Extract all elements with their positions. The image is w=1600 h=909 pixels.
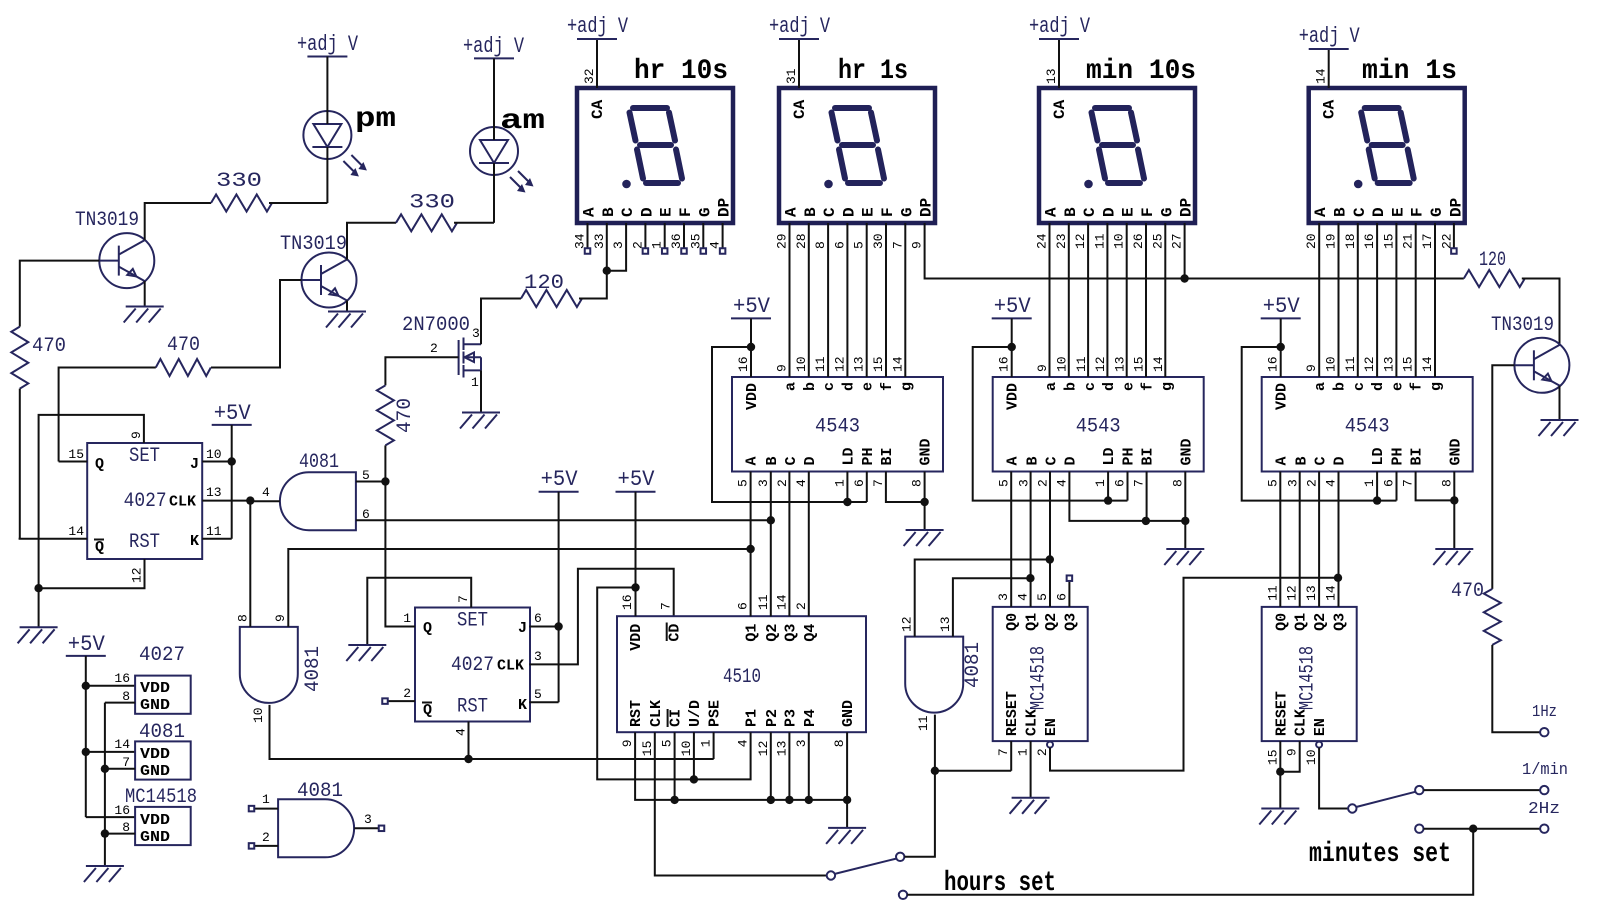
svg-text:11: 11 <box>1074 356 1089 372</box>
svg-text:DP: DP <box>918 198 936 217</box>
wire U7 P2 pin 12 <box>770 732 772 800</box>
svg-text:2: 2 <box>1036 479 1051 487</box>
wire am LED cathode <box>493 163 495 223</box>
svg-text:2: 2 <box>794 602 809 610</box>
svg-text:+adj V: +adj V <box>297 32 359 57</box>
svg-text:6: 6 <box>534 611 542 626</box>
svg-text:E: E <box>658 207 676 217</box>
svg-text:A: A <box>1273 456 1290 465</box>
svg-text:6: 6 <box>1113 479 1128 487</box>
ground U8 CLK <box>1010 798 1050 814</box>
svg-text:hr 10s: hr 10s <box>634 56 728 87</box>
ground 2N7000 source <box>460 413 500 429</box>
svg-text:G: G <box>898 207 916 217</box>
svg-text:4543: 4543 <box>1076 416 1121 439</box>
wire segment bus DS4 to U3 <box>1319 223 1435 377</box>
svg-text:GND: GND <box>1447 438 1464 465</box>
svg-text:1: 1 <box>262 792 270 807</box>
svg-text:6: 6 <box>1054 593 1069 601</box>
svg-text:RESET: RESET <box>1273 691 1290 736</box>
svg-text:14: 14 <box>1420 356 1435 372</box>
svg-text:P2: P2 <box>764 709 781 727</box>
svg-text:GND: GND <box>840 700 857 727</box>
svg-text:13: 13 <box>206 485 222 500</box>
IC U3 4543 BCD to 7-seg decoder <box>1262 356 1473 487</box>
svg-text:pm: pm <box>355 104 396 135</box>
node U3 LD junction <box>1373 496 1381 504</box>
ground Q2 emitter <box>326 312 366 328</box>
svg-text:Q4: Q4 <box>802 624 819 642</box>
svg-text:1: 1 <box>1016 748 1031 756</box>
svg-text:K: K <box>518 697 527 714</box>
svg-text:5: 5 <box>996 479 1011 487</box>
wire U1 VDD pin 16 <box>750 318 752 377</box>
svg-text:Q: Q <box>95 456 104 473</box>
svg-text:10: 10 <box>1055 356 1070 372</box>
svg-text:a: a <box>1043 382 1060 391</box>
svg-text:2: 2 <box>775 479 790 487</box>
svg-text:8: 8 <box>910 479 925 487</box>
svg-text:am: am <box>500 106 545 137</box>
wire R4 to 4027 Q <box>59 368 156 462</box>
svg-text:D: D <box>638 207 656 217</box>
wire U7 CI pin 5 <box>674 732 676 800</box>
svg-text:14: 14 <box>774 594 789 610</box>
svg-text:LD: LD <box>1370 447 1387 465</box>
wire U7 Q1 to U1 A <box>750 472 752 617</box>
svg-text:a: a <box>1312 382 1329 391</box>
wire Q1 emitter <box>144 281 146 306</box>
svg-text:16: 16 <box>997 356 1012 372</box>
svg-text:GND: GND <box>140 697 170 714</box>
svg-text:34: 34 <box>573 233 588 249</box>
svg-text:1: 1 <box>699 739 714 747</box>
node U9 Q3 tap junction <box>1334 574 1342 582</box>
transistor Q4 2N7000 MOSFET <box>402 314 481 390</box>
node U3 GND junction <box>1450 496 1458 504</box>
terminal square display4 DP <box>1451 223 1457 254</box>
svg-text:330: 330 <box>216 170 262 193</box>
svg-text:4027: 4027 <box>451 654 494 677</box>
svg-text:7: 7 <box>890 241 905 249</box>
svg-text:+5V: +5V <box>733 294 771 319</box>
svg-text:6: 6 <box>832 241 847 249</box>
resistor R2 470 (Q1 base) <box>11 327 66 389</box>
svg-text:13: 13 <box>938 616 953 632</box>
svg-text:C: C <box>1313 456 1330 465</box>
svg-text:19: 19 <box>1324 233 1339 249</box>
svg-text:10: 10 <box>206 447 222 462</box>
svg-text:DP: DP <box>1178 198 1196 217</box>
svg-text:CI: CI <box>668 709 685 727</box>
svg-text:11: 11 <box>813 356 828 372</box>
svg-text:CA: CA <box>791 99 809 119</box>
svg-text:2: 2 <box>403 686 411 701</box>
wire U5A input pin 6 bus to Q2 <box>356 519 771 521</box>
svg-text:27: 27 <box>1170 233 1185 249</box>
svg-text:P3: P3 <box>782 709 799 727</box>
svg-text:8: 8 <box>832 739 847 747</box>
AND gate U5D 4081 (unused) <box>249 780 385 857</box>
svg-text:12: 12 <box>1285 585 1300 601</box>
svg-text:f: f <box>879 382 896 391</box>
svg-text:2Hz: 2Hz <box>1528 800 1560 819</box>
svg-text:CA: CA <box>1051 99 1069 119</box>
svg-text:120: 120 <box>1479 249 1506 272</box>
wire U9 Q0 to U3 A <box>1279 472 1281 607</box>
svg-text:CD: CD <box>667 624 684 642</box>
wire 2N7000 source <box>480 370 482 412</box>
wire Q3 base <box>1492 365 1514 589</box>
svg-text:B: B <box>1332 207 1350 217</box>
svg-text:TN3019: TN3019 <box>1491 314 1554 337</box>
svg-text:+5V: +5V <box>1263 294 1301 319</box>
IC U4 4027 flip-flop (am/pm) <box>68 431 221 583</box>
+5V power symbol for logic supply <box>66 632 106 657</box>
node 2Hz rail junction <box>1469 825 1477 833</box>
svg-text:7: 7 <box>996 748 1011 756</box>
wire U5B input pin 9 bus to Q1 <box>288 549 750 627</box>
svg-text:C: C <box>1044 456 1061 465</box>
node U7 VDD junction <box>631 583 639 591</box>
svg-text:3: 3 <box>364 812 372 827</box>
svg-text:c: c <box>1351 382 1368 391</box>
svg-text:DP: DP <box>716 198 734 217</box>
wire U5B output pin 10 to PSE <box>270 705 714 759</box>
svg-text:VDD: VDD <box>1274 383 1291 410</box>
AND gate U5B 4081 (down) <box>236 614 326 723</box>
svg-text:e: e <box>860 382 877 391</box>
svg-text:d: d <box>1101 382 1118 391</box>
svg-text:16: 16 <box>1362 233 1377 249</box>
wire R2 to 4027 Q-bar <box>19 389 21 539</box>
svg-text:6: 6 <box>1382 479 1397 487</box>
wire segment bus DS2 to U1 <box>790 223 906 377</box>
AND gate U5A 4081 (mirrored) <box>262 451 370 530</box>
+adj V power symbol above DS2 <box>769 14 831 39</box>
svg-text:VDD: VDD <box>140 812 170 829</box>
svg-text:470: 470 <box>394 398 417 433</box>
svg-text:14: 14 <box>1151 356 1166 372</box>
svg-text:24: 24 <box>1035 233 1050 249</box>
wire 2N7000 gate to R5 <box>384 357 387 385</box>
wire R6 to display1 B/C node <box>579 271 607 299</box>
svg-text:15: 15 <box>1265 749 1280 765</box>
svg-text:DP: DP <box>1447 198 1465 217</box>
+5V power symbol above U7 <box>616 467 656 492</box>
svg-text:A: A <box>1312 207 1330 217</box>
node MC1 Q2 tap junction <box>1046 555 1054 563</box>
svg-text:11: 11 <box>1343 356 1358 372</box>
node U7 P2 junction <box>767 796 775 804</box>
svg-text:Q0: Q0 <box>1273 613 1290 631</box>
svg-text:+5V: +5V <box>214 401 252 426</box>
wire U3 GND to ground <box>1453 500 1455 549</box>
wire U7 GND pin 8 <box>846 732 848 828</box>
node 4510 Q2 tap junction <box>767 516 775 524</box>
IC U2 4543 BCD to 7-seg decoder <box>993 356 1204 487</box>
svg-text:4: 4 <box>1324 479 1339 487</box>
svg-text:4: 4 <box>736 739 751 747</box>
wire U4 ground drop <box>38 588 40 627</box>
ground U9 <box>1259 809 1299 825</box>
wire U7 RST pin 9 to ground rail <box>635 732 847 800</box>
wire U5A input pin 5 <box>356 481 386 483</box>
wire U6 J pin 6 +5V <box>529 492 558 627</box>
svg-text:16: 16 <box>114 671 130 686</box>
wire U7 Q4 to U1 D <box>808 472 810 617</box>
svg-text:3: 3 <box>794 739 809 747</box>
+adj V power symbol above DS4 <box>1299 24 1361 49</box>
svg-text:2: 2 <box>430 341 438 356</box>
node 4510 Q1 tap junction <box>746 545 754 553</box>
svg-text:13: 13 <box>1044 68 1059 84</box>
+5V power symbol above U4 J/K <box>212 401 252 426</box>
wire U4 J pin 10 +5V <box>202 425 232 462</box>
svg-text:120: 120 <box>524 272 564 295</box>
svg-text:B: B <box>1062 207 1080 217</box>
wire U8 EN pin 2 from U9 Q3 <box>1050 578 1338 771</box>
svg-text:C: C <box>783 456 800 465</box>
svg-text:f: f <box>1140 382 1157 391</box>
wire U4 CLK pin 13 <box>202 500 250 502</box>
svg-text:E: E <box>860 207 878 217</box>
svg-text:7: 7 <box>659 602 674 610</box>
wire display1 pin B <box>606 223 608 271</box>
wire U2 PH pin 6 <box>1127 472 1129 501</box>
svg-text:470: 470 <box>1451 580 1484 603</box>
wire SW1 throw to reset node <box>904 771 935 857</box>
svg-text:17: 17 <box>1420 233 1435 249</box>
wire U1 LD pin 1 <box>846 472 848 503</box>
svg-text:6: 6 <box>852 479 867 487</box>
wire U9 Q3 to U3 D <box>1338 472 1340 607</box>
svg-text:CA: CA <box>1321 99 1339 119</box>
svg-text:16: 16 <box>114 803 130 818</box>
svg-text:11: 11 <box>1265 585 1280 601</box>
7-segment display DS3 min 10s <box>1035 56 1197 249</box>
node U7 P3 junction <box>785 796 793 804</box>
+adj V power symbol above DS3 <box>1029 14 1091 39</box>
wire U2 GND to ground <box>1184 521 1186 549</box>
svg-text:4: 4 <box>454 728 469 736</box>
svg-text:A: A <box>1004 456 1021 465</box>
terminal 1Hz <box>1532 703 1557 736</box>
wire Q1 base <box>20 261 100 327</box>
svg-text:3: 3 <box>756 479 771 487</box>
wire U2 +5V rail to LD/PH <box>973 347 1128 501</box>
node U1 VDD junction <box>747 343 755 351</box>
svg-text:B: B <box>1294 456 1311 465</box>
power box 4027 VDD/GND <box>114 644 190 714</box>
wire U1 +5V rail to LD/PH <box>712 347 867 502</box>
ground U4 set/rst <box>18 627 58 643</box>
svg-text:12: 12 <box>1093 356 1108 372</box>
svg-text:330: 330 <box>409 192 455 215</box>
wire pm LED anode <box>326 57 328 125</box>
svg-text:D: D <box>1100 207 1118 217</box>
svg-text:+adj V: +adj V <box>463 34 525 59</box>
wire U9 Q2 to U3 C <box>1318 472 1320 607</box>
svg-text:f: f <box>1409 382 1426 391</box>
wire U5A output pin 4 <box>250 500 280 502</box>
node DP rail display3 junction <box>1180 274 1188 282</box>
svg-text:10: 10 <box>1324 356 1339 372</box>
svg-text:4510: 4510 <box>723 666 761 689</box>
svg-text:20: 20 <box>1304 233 1319 249</box>
wire U3 LD pin 1 <box>1376 472 1378 501</box>
node U2 GND junction <box>1181 517 1189 525</box>
wire U7 CLK pin 15 to hours-set switch <box>655 732 827 875</box>
svg-text:29: 29 <box>775 233 790 249</box>
svg-text:GND: GND <box>918 438 935 465</box>
svg-text:26: 26 <box>1131 233 1146 249</box>
svg-text:GND: GND <box>140 829 170 846</box>
svg-text:Q3: Q3 <box>782 624 799 642</box>
svg-text:VDD: VDD <box>628 624 645 651</box>
svg-text:5: 5 <box>534 687 542 702</box>
pin CA wire display DS1 <box>596 39 598 88</box>
node U2 LD junction <box>1104 496 1112 504</box>
svg-text:hr 1s: hr 1s <box>838 56 908 87</box>
svg-text:23: 23 <box>1054 233 1069 249</box>
7-segment display DS1 hr 10s <box>573 56 734 249</box>
svg-text:4543: 4543 <box>1345 416 1390 439</box>
pin CA wire display DS3 <box>1058 39 1060 88</box>
svg-text:e: e <box>1389 382 1406 391</box>
svg-text:8: 8 <box>1439 479 1454 487</box>
+adj V power symbol above am LED <box>463 34 525 59</box>
svg-text:30: 30 <box>871 233 886 249</box>
ground U2 <box>1164 549 1204 565</box>
transistor Q3 TN3019 (DP driver) <box>1491 314 1569 393</box>
svg-text:8: 8 <box>1170 479 1185 487</box>
wire R5 to node <box>384 445 386 481</box>
svg-text:5: 5 <box>852 241 867 249</box>
wire Q2 emitter <box>346 301 348 312</box>
svg-text:32: 32 <box>582 68 597 84</box>
svg-text:SET: SET <box>457 610 488 633</box>
wire U4 SET pin 9 to ground net <box>39 415 144 588</box>
wire Q2 base from R4 <box>211 280 302 368</box>
svg-text:A: A <box>783 207 801 217</box>
power box 4081 VDD/GND <box>114 721 190 780</box>
node +5V rail junction 4027 <box>82 682 90 690</box>
svg-text:1: 1 <box>403 611 411 626</box>
svg-text:PH: PH <box>1121 447 1138 465</box>
wire U7 Q3 to U1 C <box>788 472 790 617</box>
wire U3 PH pin 6 <box>1396 472 1398 501</box>
svg-text:TN3019: TN3019 <box>280 233 347 256</box>
svg-text:12: 12 <box>900 616 915 632</box>
svg-text:4: 4 <box>1016 593 1031 601</box>
ground Q3 emitter <box>1539 420 1579 436</box>
svg-text:VDD: VDD <box>140 746 170 763</box>
wire U7 U/D pin 10 <box>693 732 695 779</box>
svg-text:MC14518: MC14518 <box>1028 646 1051 710</box>
svg-text:2N7000: 2N7000 <box>402 314 470 337</box>
svg-text:+adj V: +adj V <box>1029 14 1091 39</box>
svg-text:14: 14 <box>114 737 130 752</box>
svg-text:36: 36 <box>669 233 684 249</box>
svg-text:7: 7 <box>122 755 130 770</box>
svg-text:11: 11 <box>916 715 931 731</box>
svg-text:Q2: Q2 <box>764 624 781 642</box>
wire U8 RESET pin 7 from U5C <box>935 741 1011 771</box>
wire U6 RST line to U7 PSE <box>469 758 714 760</box>
resistor R6 120 (segment current) <box>521 272 582 307</box>
svg-text:13: 13 <box>852 356 867 372</box>
svg-text:c: c <box>1082 382 1099 391</box>
svg-text:J: J <box>190 456 199 473</box>
svg-text:GND: GND <box>1178 438 1195 465</box>
wire U8 Q2 to U2 C <box>1049 472 1051 607</box>
svg-text:7: 7 <box>1401 479 1416 487</box>
svg-text:470: 470 <box>167 334 200 357</box>
svg-text:RST: RST <box>628 700 645 727</box>
node U7 CI junction <box>670 796 678 804</box>
svg-text:TN3019: TN3019 <box>75 209 139 232</box>
wire U8 Q1 to U2 B <box>1030 472 1032 607</box>
svg-text:Q: Q <box>423 620 432 637</box>
node U9 RESET junction <box>1276 768 1284 776</box>
svg-text:3: 3 <box>611 241 626 249</box>
svg-text:B: B <box>600 207 618 217</box>
node U2 BI junction <box>1142 517 1150 525</box>
svg-text:16: 16 <box>736 356 751 372</box>
svg-text:CLK: CLK <box>648 700 665 727</box>
svg-text:8: 8 <box>236 614 251 622</box>
svg-text:28: 28 <box>794 233 809 249</box>
wire SW1 lower throw to 2Hz rail <box>907 829 1473 895</box>
svg-text:b: b <box>802 382 819 391</box>
wire U4 Qbar pin 14 <box>19 538 88 540</box>
svg-text:12: 12 <box>130 567 145 583</box>
+5V power symbol above U2 <box>992 294 1032 319</box>
svg-text:C: C <box>619 207 637 217</box>
pin CA wire display DS4 <box>1328 49 1330 88</box>
wire U6 CLK pin 3 from 4510 CO <box>529 569 673 665</box>
svg-text:D: D <box>840 207 858 217</box>
svg-text:B: B <box>764 456 781 465</box>
svg-text:C: C <box>1081 207 1099 217</box>
wire U8 CLK pin 1 to ground <box>1030 741 1032 798</box>
wire U8 Q0 to U2 A <box>1010 472 1012 607</box>
svg-text:18: 18 <box>1343 233 1358 249</box>
svg-text:Q1: Q1 <box>1024 613 1041 631</box>
svg-text:G: G <box>696 207 714 217</box>
svg-text:1/min: 1/min <box>1522 761 1568 780</box>
svg-text:7: 7 <box>456 595 471 603</box>
svg-text:9: 9 <box>129 431 144 439</box>
switch SW2 minutes set (SPDT) <box>1348 786 1423 833</box>
svg-text:16: 16 <box>620 594 635 610</box>
svg-text:9: 9 <box>1285 748 1300 756</box>
svg-text:7: 7 <box>871 479 886 487</box>
node U2 VDD junction <box>1008 343 1016 351</box>
wire am LED anode <box>493 58 495 140</box>
svg-text:14: 14 <box>1314 68 1329 84</box>
terminal squares display1 unconnected pins <box>585 223 726 254</box>
+5V power symbol above U3 <box>1261 294 1301 319</box>
wire U9 RESET pin 15 and CLK pin 9 to ground <box>1280 741 1299 808</box>
wire 2N7000 gate <box>386 356 459 358</box>
svg-text:GND: GND <box>140 763 170 780</box>
wire 2N7000 drain to R6 <box>481 299 521 345</box>
terminal square U6 Qbar pin 2 <box>382 698 415 704</box>
wire U7 P4 pin 3 <box>808 732 810 800</box>
svg-text:12: 12 <box>756 741 771 757</box>
